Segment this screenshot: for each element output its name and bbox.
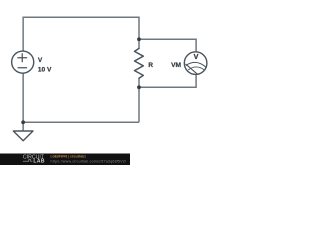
svg-text:V: V (194, 52, 199, 61)
svg-text:VM: VM (171, 62, 181, 69)
svg-text:R: R (148, 62, 153, 69)
svg-text:https://www.circuitlab.com/c/5: https://www.circuitlab.com/c/57a3q68f5V2… (51, 159, 127, 163)
svg-text:V: V (38, 57, 43, 64)
svg-text:LAB: LAB (33, 159, 44, 165)
svg-text:LGE8FW43 | circuitlab1: LGE8FW43 | circuitlab1 (51, 155, 87, 159)
svg-text:10 V: 10 V (38, 66, 52, 73)
